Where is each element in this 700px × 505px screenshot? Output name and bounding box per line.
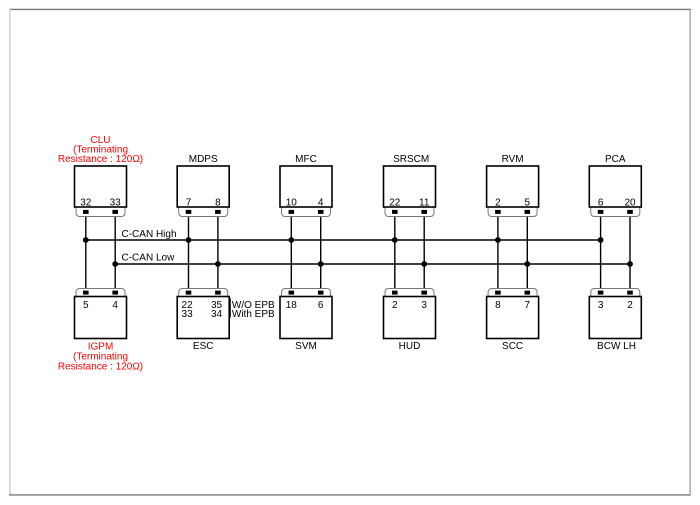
svg-text:6: 6 (318, 300, 324, 311)
svg-text:3: 3 (421, 300, 427, 311)
ECU name label CLU (with terminating resistance note) (58, 135, 143, 165)
wire PCA pin 6 to BCW LH pin 3 (crosses C-CAN High at junction) (600, 212, 602, 293)
junction dot: PCA branch on C-CAN Low (627, 261, 633, 267)
svg-text:33: 33 (182, 309, 194, 320)
svg-text:5: 5 (83, 300, 89, 311)
ECU name label IGPM (with terminating resistance note) (58, 342, 143, 373)
wire CLU pin 32 to IGPM pin 5 (crosses C-CAN High at junction) (85, 212, 87, 293)
svg-text:MDPS: MDPS (189, 154, 218, 165)
junction dot: MDPS branch on C-CAN Low (215, 261, 221, 267)
svg-text:SVM: SVM (295, 341, 317, 352)
svg-text:32: 32 (80, 197, 92, 208)
svg-text:PCA: PCA (605, 154, 626, 165)
svg-text:ESC: ESC (193, 341, 214, 352)
wire SRSCM pin 22 to HUD pin 2 (crosses C-CAN High at junction) (394, 212, 396, 293)
svg-text:With EPB: With EPB (232, 309, 275, 320)
RVM connector (top ECU) with pin terminals (488, 207, 537, 217)
svg-text:BCW LH: BCW LH (597, 341, 636, 352)
svg-text:8: 8 (215, 197, 221, 208)
SCC connector (bottom ECU) with pin terminals (488, 289, 537, 297)
ECU box SRSCM (384, 166, 436, 207)
svg-text:5: 5 (525, 197, 531, 208)
junction dot: MFC branch on C-CAN High (288, 237, 294, 243)
svg-text:33: 33 (110, 197, 122, 208)
svg-text:MFC: MFC (295, 154, 317, 165)
svg-text:SCC: SCC (502, 341, 523, 352)
SVM connector (bottom ECU) with pin terminals (282, 289, 331, 297)
svg-text:2: 2 (495, 197, 501, 208)
wire RVM pin 5 to SCC pin 7 (crosses C-CAN Low at junction) (526, 212, 528, 293)
ESC alternate pins 33 / 34 (With EPB) (182, 309, 223, 320)
ECU box CLU (75, 166, 127, 207)
svg-text:7: 7 (525, 300, 531, 311)
PCA connector (top ECU) with pin terminals (591, 207, 640, 217)
junction dot: RVM branch on C-CAN Low (524, 261, 530, 267)
svg-text:6: 6 (598, 197, 604, 208)
svg-text:18: 18 (286, 300, 298, 311)
svg-text:RVM: RVM (502, 154, 524, 165)
wire CLU pin 33 to IGPM pin 4 (crosses C-CAN Low at junction) (114, 212, 116, 293)
junction dot: SRSCM branch on C-CAN High (392, 237, 398, 243)
junction dot: RVM branch on C-CAN High (495, 237, 501, 243)
ECU box MDPS (177, 166, 229, 207)
svg-text:Resistance : 120Ω): Resistance : 120Ω) (58, 154, 143, 165)
IGPM connector (bottom ECU) with pin terminals (76, 289, 125, 297)
svg-text:Resistance : 120Ω): Resistance : 120Ω) (58, 361, 143, 372)
BCW LH connector (bottom ECU) with pin terminals (591, 289, 640, 297)
ESC connector (bottom ECU) with pin terminals (179, 289, 228, 297)
ECU box SCC (487, 297, 539, 339)
svg-text:2: 2 (392, 300, 398, 311)
svg-text:8: 8 (495, 300, 501, 311)
svg-text:4: 4 (318, 197, 324, 208)
svg-text:4: 4 (112, 300, 118, 311)
junction dot: CLU branch on C-CAN Low (112, 261, 118, 267)
svg-text:C-CAN Low: C-CAN Low (122, 253, 176, 264)
ECU box IGPM (75, 297, 127, 339)
svg-text:7: 7 (186, 197, 192, 208)
ECU box PCA (589, 166, 641, 207)
svg-text:C-CAN High: C-CAN High (122, 229, 177, 240)
junction dot: MDPS branch on C-CAN High (186, 237, 192, 243)
ESC variant divider line (229, 298, 231, 317)
svg-text:22: 22 (389, 197, 401, 208)
wire MFC pin 4 to SVM pin 6 (crosses C-CAN Low at junction) (320, 212, 322, 293)
svg-text:2: 2 (627, 300, 633, 311)
ECU box RVM (487, 166, 539, 207)
wire MFC pin 10 to SVM pin 18 (crosses C-CAN High at junction) (290, 212, 292, 293)
ECU box ESC (177, 297, 229, 339)
svg-text:20: 20 (624, 197, 636, 208)
junction dot: CLU branch on C-CAN High (83, 237, 89, 243)
wire MDPS pin 8 to ESC pin 35 (crosses C-CAN Low at junction) (217, 212, 219, 293)
ECU box MFC (280, 166, 332, 207)
HUD connector (bottom ECU) with pin terminals (385, 289, 434, 297)
MDPS connector (top ECU) with pin terminals (179, 207, 228, 217)
svg-text:3: 3 (598, 300, 604, 311)
junction dot: PCA branch on C-CAN High (598, 237, 604, 243)
wire MDPS pin 7 to ESC pin 22 (crosses C-CAN High at junction) (188, 212, 190, 293)
CLU connector (top ECU) with pin terminals (76, 207, 125, 217)
wire SRSCM pin 11 to HUD pin 3 (crosses C-CAN Low at junction) (423, 212, 425, 293)
C-CAN High bus wire (86, 239, 601, 241)
svg-text:11: 11 (419, 197, 430, 208)
ECU box SVM (280, 297, 332, 339)
wire RVM pin 2 to SCC pin 8 (crosses C-CAN High at junction) (497, 212, 499, 293)
svg-text:10: 10 (286, 197, 298, 208)
svg-text:HUD: HUD (399, 341, 421, 352)
SRSCM connector (top ECU) with pin terminals (385, 207, 434, 217)
ECU box HUD (384, 297, 436, 339)
svg-text:SRSCM: SRSCM (393, 154, 429, 165)
junction dot: SRSCM branch on C-CAN Low (421, 261, 427, 267)
MFC connector (top ECU) with pin terminals (282, 207, 331, 217)
junction dot: MFC branch on C-CAN Low (318, 261, 324, 267)
svg-text:34: 34 (211, 309, 223, 320)
ECU box BCW LH (589, 297, 641, 339)
wire PCA pin 20 to BCW LH pin 2 (crosses C-CAN Low at junction) (629, 212, 631, 293)
C-CAN Low bus wire (115, 263, 630, 265)
